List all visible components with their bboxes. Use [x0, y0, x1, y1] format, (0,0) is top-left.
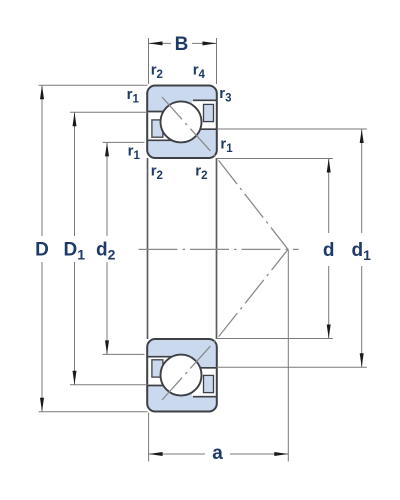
svg-text:r2: r2	[195, 162, 207, 182]
svg-text:D1: D1	[64, 240, 86, 263]
svg-text:r3: r3	[219, 85, 231, 105]
svg-text:d2: d2	[96, 240, 116, 263]
svg-text:r2: r2	[151, 162, 163, 182]
svg-text:D: D	[35, 240, 49, 261]
svg-text:r1: r1	[220, 136, 233, 156]
svg-text:r1: r1	[127, 86, 140, 106]
svg-text:d1: d1	[352, 240, 372, 263]
svg-text:r1: r1	[128, 143, 141, 163]
svg-text:a: a	[212, 443, 223, 464]
svg-text:d: d	[323, 240, 335, 261]
svg-text:r4: r4	[193, 62, 206, 82]
svg-text:r2: r2	[151, 62, 163, 82]
svg-text:B: B	[175, 34, 189, 55]
